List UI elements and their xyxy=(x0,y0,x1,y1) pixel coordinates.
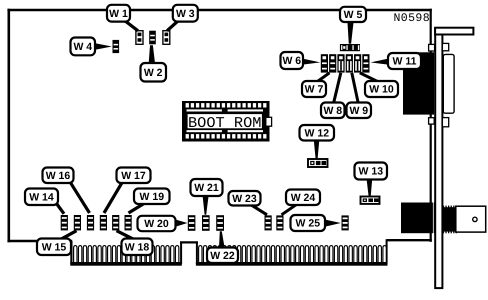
svg-text:W 14: W 14 xyxy=(29,191,54,203)
svg-text:W 6: W 6 xyxy=(282,55,301,67)
svg-text:W 22: W 22 xyxy=(210,250,235,262)
svg-text:W 13: W 13 xyxy=(359,166,384,178)
svg-text:W 17: W 17 xyxy=(121,170,146,182)
svg-text:W 2: W 2 xyxy=(144,67,163,79)
svg-text:W 11: W 11 xyxy=(393,56,417,68)
svg-text:W 24: W 24 xyxy=(291,192,316,204)
svg-text:W 8: W 8 xyxy=(323,105,342,117)
svg-text:W 19: W 19 xyxy=(140,191,165,203)
svg-text:BOOT ROM: BOOT ROM xyxy=(188,115,262,132)
svg-text:W 4: W 4 xyxy=(73,41,92,53)
svg-text:W 12: W 12 xyxy=(305,127,330,139)
svg-text:W 16: W 16 xyxy=(46,170,71,182)
svg-text:W 23: W 23 xyxy=(232,193,257,205)
svg-text:W 10: W 10 xyxy=(369,84,394,96)
svg-text:W 20: W 20 xyxy=(144,218,169,230)
svg-text:W 5: W 5 xyxy=(344,9,363,21)
svg-text:W 15: W 15 xyxy=(42,241,67,253)
svg-text:W 21: W 21 xyxy=(194,182,219,194)
svg-text:W 25: W 25 xyxy=(296,218,321,230)
svg-text:W 3: W 3 xyxy=(176,8,195,20)
svg-text:W 9: W 9 xyxy=(349,105,368,117)
svg-text:N0598: N0598 xyxy=(394,12,431,25)
svg-text:W 18: W 18 xyxy=(125,241,150,253)
svg-text:W 7: W 7 xyxy=(305,84,324,96)
svg-text:W 1: W 1 xyxy=(109,8,128,20)
